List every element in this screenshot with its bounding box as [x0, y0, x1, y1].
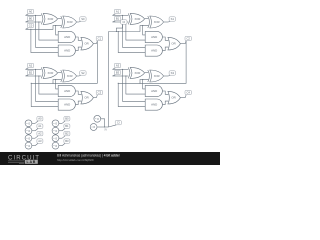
- svg-text:OR: OR: [171, 42, 175, 46]
- XOR gate U11 (A xor B): [41, 67, 57, 78]
- flag S3 (sum bit 3): [168, 71, 175, 76]
- wire AND8 output to OR input: [163, 37, 169, 40]
- flag B2 (input B bit 2): [26, 70, 34, 76]
- svg-text:0: 0: [28, 144, 30, 148]
- wire AND4 output to OR input: [76, 47, 82, 51]
- wire net B1 to XOR input: [113, 21, 129, 23]
- flag S1 (sum bit 1): [168, 17, 175, 22]
- svg-text:AND: AND: [64, 35, 70, 39]
- wire B1 branch to AND input: [126, 22, 145, 40]
- wire XOR17 output to sum flag: [164, 75, 169, 77]
- junction node B3 branch: [125, 75, 126, 76]
- junction node A2 branch: [35, 69, 36, 70]
- wire XOR1 output branch down: [56, 26, 59, 35]
- junction node B1 branch: [125, 21, 126, 22]
- AND gate U4 (C and (A xor B)): [58, 45, 75, 56]
- junction node B0 branch: [38, 21, 39, 22]
- junction FA2 carry flag stub: [116, 31, 117, 32]
- wire XOR6 output branch down: [143, 26, 146, 35]
- flag B1 (input B bit 1): [113, 16, 121, 22]
- junction C1 at FA3: [31, 83, 32, 84]
- svg-text:AND: AND: [64, 49, 70, 53]
- flag C4 (carry out 3): [185, 90, 191, 97]
- wire AND19 output to OR input: [163, 101, 169, 105]
- flag C3 (carry out 2): [96, 90, 102, 97]
- wire XOR11 output to XOR12: [58, 72, 61, 74]
- flag C0 (carry in of FA1): [26, 23, 34, 29]
- wire A2 branch to AND input: [36, 69, 59, 101]
- wire net B0 to XOR input: [26, 21, 42, 23]
- wire source V7 to flag: [59, 137, 62, 139]
- XOR gate U1 (A xor B): [41, 13, 57, 24]
- wire AND14 output to OR input: [76, 101, 82, 105]
- wire XOR16 output branch down: [143, 80, 146, 89]
- wire C0 to XOR2 lower input: [26, 26, 62, 30]
- svg-text:AND: AND: [64, 103, 70, 107]
- flag CI on FA2 carry-in: [121, 20, 127, 24]
- wire AND13 output to OR input: [76, 91, 82, 94]
- OR gate U5 (carry out): [81, 37, 94, 50]
- flag C1 (carry out 0): [96, 36, 102, 43]
- wire AND18 output to OR input: [163, 91, 169, 94]
- wire AND9 output to OR input: [163, 47, 169, 51]
- wire OR5 output to carry flag: [94, 43, 97, 45]
- junction C2 at FA4: [118, 83, 119, 84]
- AND gate U3 (A and B): [58, 31, 75, 42]
- wire A3 branch to AND input: [123, 69, 146, 101]
- junction XOR1 output branch: [55, 25, 56, 26]
- footer bar: [0, 152, 220, 165]
- svg-text:0: 0: [93, 125, 95, 129]
- AND gate U13 (A and B): [58, 85, 75, 96]
- junction node B2 branch: [38, 75, 39, 76]
- wire source V5 to flag: [59, 122, 62, 124]
- junction FA2 carry branch: [118, 31, 119, 32]
- svg-text:AND: AND: [64, 89, 70, 93]
- logic source V7 (B2 input): [52, 135, 59, 142]
- wire XOR7 output to sum flag: [164, 21, 169, 23]
- flag C2 (carry out 1): [185, 36, 191, 43]
- wire XOR11 output branch down: [56, 80, 59, 89]
- wire carry-in net riser from source to FA2: [108, 32, 110, 128]
- svg-text:LAB: LAB: [27, 160, 37, 164]
- flag B3 at source: [62, 139, 70, 146]
- svg-text:0: 0: [28, 121, 30, 125]
- OR gate U10 (carry out): [168, 37, 181, 50]
- svg-text:0: 0: [55, 129, 57, 133]
- flag A3 (input A bit 3): [113, 63, 121, 69]
- logic source V3 (A2 input): [25, 135, 32, 142]
- flag CI at source: [109, 121, 122, 128]
- svg-text:OR: OR: [84, 42, 88, 46]
- wire C2 branch to FA4 AND input: [118, 83, 145, 106]
- AND gate U9 (C and (A xor B)): [145, 45, 162, 56]
- wire C2 into FA4 XOR2 input: [140, 80, 148, 84]
- wire net B2 to XOR input: [26, 75, 42, 77]
- svg-text:OR: OR: [84, 96, 88, 100]
- flag B1 at source: [62, 124, 70, 131]
- svg-text:0: 0: [55, 144, 57, 148]
- wire A1 branch to AND input: [123, 15, 146, 47]
- wire XOR16 output to XOR17: [145, 72, 148, 74]
- XOR gate U7 (sum): [148, 16, 164, 28]
- svg-text:AND: AND: [151, 49, 157, 53]
- svg-text:0V: 0V: [104, 128, 107, 131]
- junction node A0 branch: [35, 15, 36, 16]
- OR gate U15 (carry out): [81, 91, 94, 104]
- flag A1 at source: [35, 124, 43, 131]
- logic source V2 (A1 input): [25, 127, 32, 134]
- flag S0 (sum bit 0): [79, 17, 86, 22]
- flag A2 at source: [35, 131, 43, 138]
- wire B3 branch to AND input: [126, 76, 145, 94]
- wire carry-in source to riser: [97, 126, 108, 128]
- CircuitLab logo: [8, 155, 40, 164]
- wire XOR1 output to XOR2: [58, 18, 61, 20]
- OR gate U20 (carry out): [168, 91, 181, 104]
- XOR gate U16 (A xor B): [128, 67, 144, 78]
- flag B0 (input B bit 0): [26, 16, 34, 22]
- flag A3 at source: [35, 139, 43, 146]
- flag A2 (input A bit 2): [26, 63, 34, 69]
- wire carry C2 from FA2 down to FA4: [118, 41, 186, 84]
- flag B2 at source: [62, 131, 70, 138]
- AND gate U8 (A and B): [145, 31, 162, 42]
- XOR gate U2 (sum): [61, 16, 77, 28]
- flag A0 at source: [35, 117, 43, 124]
- AND gate U14 (C and (A xor B)): [58, 99, 75, 110]
- junction C1 XOR branch: [52, 83, 53, 84]
- wire stub to flag CI: [116, 24, 122, 31]
- logic source V5 (B0 input): [52, 120, 59, 127]
- junction XOR16 output branch: [142, 79, 143, 80]
- XOR gate U12 (sum): [61, 70, 77, 82]
- wire OR15 output to carry flag: [94, 97, 97, 99]
- wire source V3 to flag: [32, 137, 35, 139]
- wire OR20 output to carry flag: [181, 97, 186, 99]
- flag B3 (input B bit 3): [113, 70, 121, 76]
- flag A1 (input A bit 1): [113, 9, 121, 15]
- source V10 (carry-in): [90, 124, 97, 131]
- flag B0 at source: [62, 117, 70, 124]
- wire source V6 to flag: [59, 130, 62, 132]
- svg-text:AND: AND: [151, 35, 157, 39]
- wire C1 into FA3 XOR2 input: [53, 80, 61, 84]
- wire carry C1 from FA1 down to FA3: [31, 41, 97, 84]
- svg-text:0: 0: [28, 136, 30, 140]
- XOR gate U17 (sum): [148, 70, 164, 82]
- AND gate U18 (A and B): [145, 85, 162, 96]
- svg-text:0: 0: [55, 121, 57, 125]
- junction node A1 branch: [122, 15, 123, 16]
- flag A0 (input A bit 0): [26, 9, 34, 15]
- wire net B3 to XOR input: [113, 75, 129, 77]
- wire B0 branch to AND input: [39, 22, 59, 40]
- flag S2 (sum bit 2): [79, 71, 86, 76]
- wire source V2 to flag: [32, 130, 35, 132]
- wire XOR2 output to sum flag: [77, 21, 79, 23]
- svg-text:AND: AND: [151, 89, 157, 93]
- wire A0 branch to AND input: [36, 15, 59, 47]
- wire net A0 to XOR input: [26, 14, 42, 16]
- wire C0 branch down to AND gate: [31, 29, 59, 52]
- wire source V4 to flag: [32, 145, 35, 147]
- svg-text:0: 0: [97, 117, 99, 121]
- logic source V4 (A3 input): [25, 142, 32, 149]
- junction XOR11 output branch: [55, 79, 56, 80]
- wire source V1 to flag: [32, 122, 35, 124]
- AND gate U19 (C and (A xor B)): [145, 99, 162, 110]
- wire OR10 output to carry flag: [181, 43, 186, 45]
- wire AND3 output to OR input: [76, 37, 82, 40]
- junction XOR6 output branch: [142, 25, 143, 26]
- svg-text:OR: OR: [171, 96, 175, 100]
- junction carry-in net: [104, 126, 105, 127]
- svg-text:Bill Ashmanskas (ashmanskas) |: Bill Ashmanskas (ashmanskas) | 4 bit add…: [57, 154, 121, 158]
- source V9 (carry-in reference): [94, 115, 101, 122]
- svg-text:0: 0: [28, 129, 30, 133]
- wire carry-in to FA2 XOR2 input: [109, 26, 149, 32]
- svg-text:http://circuitlab.com/c/8q8tr6: http://circuitlab.com/c/8q8tr6/: [57, 158, 94, 162]
- wire B2 branch to AND input: [39, 76, 59, 94]
- logic source V8 (B3 input): [52, 142, 59, 149]
- logic source V1 (A0 input): [25, 120, 32, 127]
- wire source V8 to flag: [59, 145, 62, 147]
- wire net A1 to XOR input: [113, 14, 129, 16]
- junction node A3 branch: [122, 69, 123, 70]
- svg-text:0: 0: [55, 136, 57, 140]
- wire FA2 carry branch to AND gate: [118, 32, 145, 53]
- junction C2 XOR branch: [139, 83, 140, 84]
- svg-text:AND: AND: [151, 103, 157, 107]
- wire net A2 to XOR input: [26, 68, 42, 70]
- wire net A3 to XOR input: [113, 68, 129, 70]
- XOR gate U6 (A xor B): [128, 13, 144, 24]
- wire XOR6 output to XOR7: [145, 18, 148, 20]
- junction C0 branch: [30, 29, 31, 30]
- wire V9 to carry-in net: [101, 119, 105, 127]
- logic source V6 (B1 input): [52, 127, 59, 134]
- wire XOR12 output to sum flag: [77, 75, 79, 77]
- wire C1 branch to FA3 AND input: [31, 83, 58, 106]
